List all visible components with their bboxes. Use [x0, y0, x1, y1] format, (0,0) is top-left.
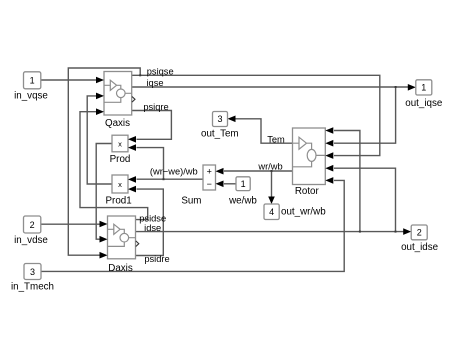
svg-text:Daxis: Daxis [108, 263, 133, 274]
svg-text:x: x [118, 180, 122, 189]
svg-text:out_iqse: out_iqse [405, 98, 443, 109]
svg-text:out_wr/wb: out_wr/wb [281, 207, 326, 218]
svg-text:4: 4 [269, 207, 274, 217]
svg-text:1: 1 [241, 179, 246, 189]
svg-text:psiqse: psiqse [147, 66, 174, 76]
svg-text:2: 2 [417, 228, 422, 238]
svg-text:iqse: iqse [146, 78, 163, 88]
svg-text:out_idse: out_idse [401, 242, 439, 253]
svg-text:3: 3 [217, 114, 222, 124]
svg-text:wr/wb: wr/wb [257, 161, 282, 171]
svg-text:in_vqse: in_vqse [14, 91, 48, 102]
svg-text:Rotor: Rotor [295, 186, 320, 197]
svg-text:(wr−we)/wb: (wr−we)/wb [150, 167, 198, 177]
svg-text:psidre: psidre [144, 254, 169, 264]
svg-text:we/wb: we/wb [228, 196, 257, 207]
svg-text:Tem: Tem [267, 135, 285, 145]
svg-text:Prod: Prod [110, 154, 131, 165]
svg-text:2: 2 [30, 220, 35, 230]
svg-text:+: + [207, 167, 212, 177]
svg-text:x: x [118, 139, 122, 148]
svg-text:out_Tem: out_Tem [201, 128, 239, 139]
svg-text:Prod1: Prod1 [106, 195, 132, 206]
svg-text:Sum: Sum [181, 196, 201, 207]
svg-text:in_vdse: in_vdse [14, 235, 48, 246]
svg-text:−: − [207, 179, 212, 189]
svg-text:Qaxis: Qaxis [105, 118, 130, 129]
svg-text:psiqre: psiqre [143, 102, 168, 112]
svg-text:in_Tmech: in_Tmech [11, 281, 54, 292]
svg-text:1: 1 [30, 76, 35, 86]
svg-text:3: 3 [30, 267, 35, 277]
svg-text:1: 1 [421, 83, 426, 93]
svg-text:idse: idse [144, 223, 161, 233]
